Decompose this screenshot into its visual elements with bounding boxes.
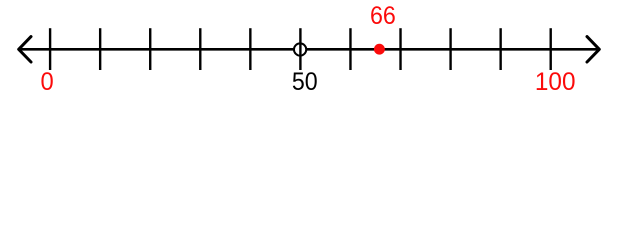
svg-text:100: 100 bbox=[535, 68, 576, 96]
svg-text:66: 66 bbox=[370, 2, 396, 30]
svg-text:0: 0 bbox=[41, 68, 54, 96]
svg-text:50: 50 bbox=[292, 68, 318, 96]
